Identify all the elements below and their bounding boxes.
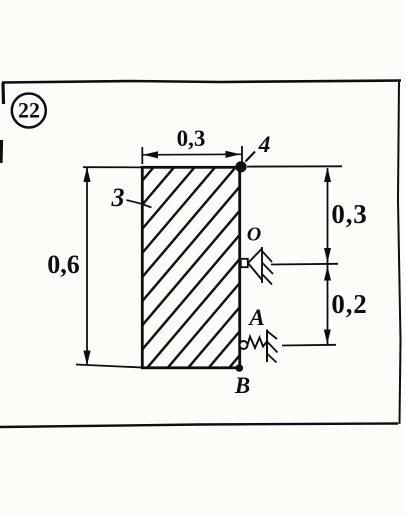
svg-text:22: 22 [18, 98, 40, 123]
svg-text:0,3: 0,3 [177, 126, 206, 151]
svg-text:4: 4 [258, 132, 271, 158]
svg-text:A: A [247, 305, 264, 330]
svg-text:3: 3 [111, 183, 125, 212]
svg-text:B: B [234, 373, 250, 398]
svg-text:O: O [247, 224, 261, 246]
svg-text:0,2: 0,2 [331, 289, 367, 319]
svg-text:0,6: 0,6 [47, 250, 80, 279]
svg-text:0,3: 0,3 [331, 199, 367, 229]
